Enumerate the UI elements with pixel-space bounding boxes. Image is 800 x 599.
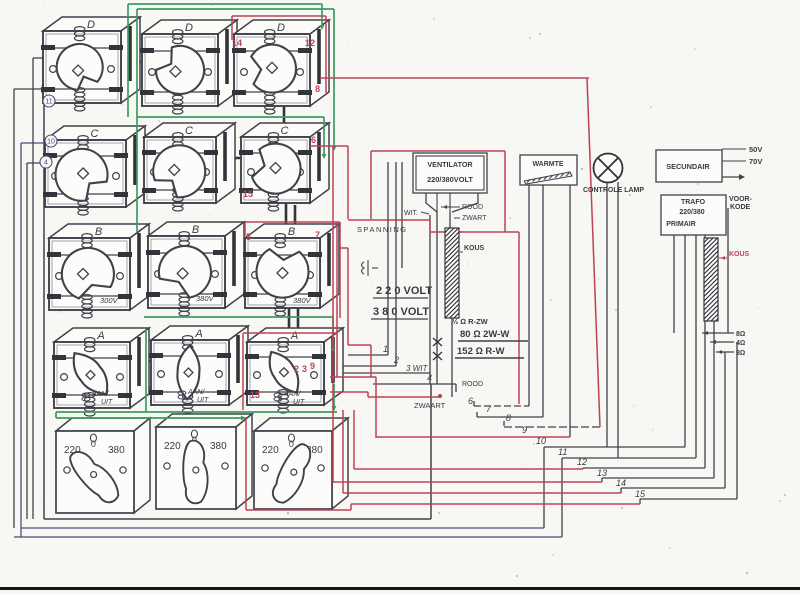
terminal number 4 circled xyxy=(40,156,52,168)
trafo box xyxy=(661,195,726,235)
svg-text:UIT: UIT xyxy=(101,399,113,406)
svg-text:11: 11 xyxy=(558,447,567,457)
svg-text:WIT.: WIT. xyxy=(404,210,418,217)
svg-text:2: 2 xyxy=(294,364,299,374)
red wire row B frame top xyxy=(245,221,340,223)
wire 11 riser to trafo xyxy=(695,230,697,458)
red wire spanning frame right drop xyxy=(429,220,431,232)
wire 1 vertical spanning xyxy=(387,162,389,355)
svg-text:13: 13 xyxy=(597,468,607,478)
rotary switch B1 xyxy=(47,224,149,318)
wire 12 horizontal xyxy=(583,467,705,469)
green wire row A left vertical xyxy=(145,330,147,412)
svg-text:4: 4 xyxy=(44,160,48,167)
bottom scan edge xyxy=(0,587,800,590)
svg-text:10: 10 xyxy=(536,436,546,446)
wire voorkode vertical xyxy=(727,208,729,333)
red wire feeder 12 vertical xyxy=(353,410,355,469)
svg-text:SPANNING: SPANNING xyxy=(357,225,408,234)
red wire ventilator loop top xyxy=(371,150,505,152)
svg-text:ROOD: ROOD xyxy=(462,381,483,388)
wire left bus 4 vertical xyxy=(32,58,34,519)
svg-text:15: 15 xyxy=(243,189,253,199)
wire spanning third vertical xyxy=(401,162,403,268)
svg-text:80 Ω 2W-W: 80 Ω 2W-W xyxy=(460,329,509,340)
svg-text:B: B xyxy=(95,226,102,238)
red wire spanning frame top xyxy=(348,219,430,221)
wire ROOD vertical xyxy=(436,212,438,384)
red wire 5 jog xyxy=(367,392,369,397)
wire 11 drop to bus xyxy=(561,458,563,537)
svg-text:14: 14 xyxy=(616,478,626,488)
svg-text:380: 380 xyxy=(210,441,227,452)
svg-text:7: 7 xyxy=(315,230,320,240)
wire 9 riser to warmte third tap xyxy=(569,185,571,437)
svg-text:2 2 0 VOLT: 2 2 0 VOLT xyxy=(376,285,432,297)
green wire inner left vertical xyxy=(136,9,138,232)
svg-text:4Ω: 4Ω xyxy=(736,340,745,347)
green wire right long drop xyxy=(333,9,335,148)
svg-text:WARMTE: WARMTE xyxy=(532,161,563,168)
svg-text:12: 12 xyxy=(305,38,315,48)
red wire row B right drop xyxy=(339,222,341,318)
wire link B1-B2 xyxy=(131,257,147,259)
green wire top inner horizontal xyxy=(137,8,334,10)
wire link A2-A3 xyxy=(230,361,246,363)
svg-text:C: C xyxy=(91,128,99,140)
wire 3 horizontal WIT xyxy=(340,372,430,374)
svg-text:0: 0 xyxy=(91,439,96,449)
green wire arrow line above selectors xyxy=(56,417,242,419)
wire 2 horizontal xyxy=(340,365,396,367)
rotary switch D2 xyxy=(140,20,237,114)
terminal number 11 circled xyxy=(43,95,55,107)
svg-text:6: 6 xyxy=(311,135,316,145)
svg-text:UIT: UIT xyxy=(293,399,305,406)
wire link D-C rows xyxy=(283,98,286,137)
svg-text:3 8 0 VOLT: 3 8 0 VOLT xyxy=(373,306,429,318)
svg-text:300V: 300V xyxy=(100,296,119,305)
wire 10 riser to trafo xyxy=(684,230,686,447)
green wire drop to row A xyxy=(332,317,334,350)
voltage selector S220-380 nr3 xyxy=(254,418,348,509)
svg-text:C: C xyxy=(281,125,289,137)
wire 7 riser to warmte xyxy=(542,185,544,417)
wire link B-A rows b xyxy=(297,308,300,344)
wire left bus 2 top tap xyxy=(21,142,45,144)
red wire loop D3 right drop xyxy=(325,16,327,93)
red wire row B left drop xyxy=(244,222,246,236)
svg-text:0: 0 xyxy=(289,439,294,449)
rotary switch B2 xyxy=(146,222,244,316)
wire 10 drop to bus xyxy=(543,447,545,528)
red wire step to 371 xyxy=(348,344,371,346)
green wire row C frame top xyxy=(137,116,324,118)
wire 15 link xyxy=(639,499,641,504)
wire WIT vertical xyxy=(429,215,431,384)
red wire feeder 14 vertical xyxy=(342,410,344,493)
wire tap 8 ohm upper xyxy=(702,332,734,334)
wire 13 riser to kous xyxy=(713,321,715,478)
svg-text:PRIMAIR: PRIMAIR xyxy=(666,221,696,228)
svg-text:5: 5 xyxy=(246,232,251,242)
svg-text:2: 2 xyxy=(393,355,399,365)
wire 4 end jog xyxy=(455,384,457,392)
green wire row A right drop xyxy=(333,384,335,408)
wire left bus 3 top tap xyxy=(27,162,45,164)
label AAN/UIT xyxy=(178,389,209,404)
svg-text:13: 13 xyxy=(250,390,260,400)
svg-text:9: 9 xyxy=(310,361,315,371)
wire 50V tap xyxy=(722,148,746,150)
rotary switch A3 xyxy=(245,328,343,413)
red wire jog across xyxy=(430,231,519,233)
wire link C1-C2 xyxy=(127,154,143,156)
label AAN/UIT xyxy=(82,391,113,406)
green wire below row B xyxy=(144,316,333,318)
red wire loop D3 left drop xyxy=(231,16,233,40)
svg-text:KOUS: KOUS xyxy=(464,245,485,252)
svg-text:12: 12 xyxy=(577,457,587,467)
ventilator box xyxy=(413,153,487,193)
green wire top outer horizontal xyxy=(128,3,322,5)
rotary switch D1 xyxy=(41,17,140,111)
terminal number 10 circled xyxy=(45,135,57,147)
red wire main vertical right xyxy=(587,78,600,427)
svg-text:D: D xyxy=(87,19,95,31)
wire ZWART vertical upper xyxy=(449,212,451,228)
secundair box xyxy=(656,150,722,182)
red wire ventilator loop right drop xyxy=(504,151,506,232)
red wire inner vertical xyxy=(347,248,349,345)
svg-text:8: 8 xyxy=(315,84,320,94)
controle lamp xyxy=(594,154,623,183)
red wire bundle tap a xyxy=(330,376,376,378)
wire 11 return bus bottom xyxy=(14,536,562,538)
wire left bus 3 vertical xyxy=(26,163,28,519)
kous sleeve on ventilator cable xyxy=(445,228,459,318)
red wire 8 horizontal to far right xyxy=(320,77,589,79)
green wire bottom left jog xyxy=(55,412,57,418)
svg-text:VENTILATOR: VENTILATOR xyxy=(427,160,473,169)
output arrow xyxy=(722,176,742,178)
lamp wire left to wire 10 xyxy=(606,182,608,447)
svg-text:220: 220 xyxy=(164,441,181,452)
svg-text:ZWART: ZWART xyxy=(462,215,487,222)
wire tap 4 ohm xyxy=(710,341,734,343)
wire tap 8 ohm lower xyxy=(716,351,734,353)
wire 15 horizontal xyxy=(640,498,737,500)
svg-text:B: B xyxy=(192,224,199,236)
rotary switch B3 xyxy=(243,224,339,316)
svg-text:TRAFO: TRAFO xyxy=(681,199,706,206)
svg-text:8Ω: 8Ω xyxy=(736,331,745,338)
connection x marks xyxy=(433,338,442,360)
svg-text:ROOD: ROOD xyxy=(462,204,483,211)
red wire 9 horizontal xyxy=(376,436,570,438)
wire 12 riser xyxy=(704,230,706,468)
red wire long vertical feeder 13 xyxy=(332,146,334,482)
svg-text:6: 6 xyxy=(468,396,473,406)
wire link C2-C3 xyxy=(217,157,240,159)
red wire row A frame left xyxy=(242,333,244,410)
red wire ventilator loop left xyxy=(370,151,372,219)
svg-text:AAN/: AAN/ xyxy=(283,391,301,398)
red wire drop from 6 xyxy=(347,146,349,219)
red wire vertical A right xyxy=(336,222,338,377)
red wire selector 3 loop left xyxy=(245,417,247,510)
svg-text:SECUNDAIR: SECUNDAIR xyxy=(666,162,710,171)
red wire row A frame top xyxy=(243,332,337,334)
voltage selector S220-380 nr1 xyxy=(56,418,150,513)
svg-text:3 WIT: 3 WIT xyxy=(406,364,428,373)
wire link A1-A2 xyxy=(131,360,150,362)
wire 14 horizontal xyxy=(621,487,725,489)
rotary switch C1 xyxy=(43,126,145,215)
enclosure left side xyxy=(43,95,45,519)
svg-text:14: 14 xyxy=(232,38,242,48)
ventilator cable bracket xyxy=(426,193,437,212)
svg-text:AAN/: AAN/ xyxy=(91,391,109,398)
green wire row A bottom xyxy=(56,411,337,413)
svg-text:UIT: UIT xyxy=(197,397,209,404)
svg-text:220: 220 xyxy=(262,445,279,456)
wire link B2-B3 xyxy=(226,259,244,261)
wire 4 horizontal xyxy=(373,383,456,385)
voltage selector S220-380 nr2 xyxy=(156,414,252,509)
svg-text:380: 380 xyxy=(108,445,125,456)
wire 10 return bus bottom xyxy=(21,527,544,529)
rotary switch C2 xyxy=(142,123,235,211)
spring symbol xyxy=(362,260,369,276)
red wire drop to tap xyxy=(370,345,372,377)
svg-text:220/380VOLT: 220/380VOLT xyxy=(427,175,473,184)
red wire 13 feeder horizontal xyxy=(333,481,602,483)
wire link A1-A2 lower xyxy=(131,387,150,389)
rotary switch C3 xyxy=(239,123,329,211)
svg-text:50V: 50V xyxy=(749,145,762,154)
svg-text:KOUS: KOUS xyxy=(729,251,750,258)
wire 1 horizontal xyxy=(348,354,388,356)
green wire left vertical to row C xyxy=(127,4,129,117)
wire link D1-D2 xyxy=(121,61,141,63)
junction X mark xyxy=(42,85,50,93)
svg-text:10: 10 xyxy=(47,139,55,146)
wire link B-A rows a xyxy=(288,306,291,344)
wire 11 horizontal xyxy=(562,457,696,459)
red wire 5 horizontal xyxy=(368,396,440,398)
svg-text:70V: 70V xyxy=(749,157,762,166)
wire 6 riser to warmte xyxy=(528,185,530,406)
wire 8 horizontal xyxy=(504,426,600,428)
warmte box xyxy=(520,155,577,185)
red wire row C stub 6 xyxy=(310,145,348,147)
red wire drop right of kous xyxy=(518,232,520,404)
enclosure right riser from wire 4 xyxy=(430,384,432,519)
svg-text:C: C xyxy=(185,125,193,137)
wire 13 horizontal xyxy=(602,477,714,479)
red wire 12 feeder horizontal xyxy=(354,468,583,470)
wire link D2-D3 xyxy=(218,64,233,66)
wire 12 joint xyxy=(582,468,584,469)
svg-text:D: D xyxy=(185,22,193,34)
label AAN/UIT xyxy=(274,391,305,406)
svg-text:A: A xyxy=(194,328,202,340)
svg-text:15: 15 xyxy=(635,489,646,499)
green wire right drop xyxy=(321,4,323,28)
wire 14 riser xyxy=(724,352,726,488)
svg-text:8Ω: 8Ω xyxy=(736,350,745,357)
svg-text:VOOR-: VOOR- xyxy=(729,196,753,203)
svg-text:11: 11 xyxy=(45,99,52,106)
svg-text:A: A xyxy=(96,330,104,342)
kous sleeve on trafo wires xyxy=(704,238,718,321)
wire left bus 1 top tap xyxy=(14,88,46,90)
wire left bus 2 vertical xyxy=(20,143,22,537)
rotary switch A2 xyxy=(149,326,248,413)
red wire 15 feeder horizontal xyxy=(351,503,640,505)
wire link C-B rows a xyxy=(285,202,288,240)
wire 8 start tick xyxy=(503,421,505,426)
svg-text:AAN/: AAN/ xyxy=(187,389,205,396)
wire 15 riser xyxy=(736,342,738,499)
wire 70V tap xyxy=(722,160,746,162)
svg-text:A: A xyxy=(290,330,298,342)
red wire loop over D3 top xyxy=(232,15,326,17)
wire 7 start tick xyxy=(476,412,478,417)
red wire selector 3 loop bottom xyxy=(246,509,351,511)
wire 10 horizontal xyxy=(544,446,685,448)
wire trafo tap 8 ohm top xyxy=(673,230,675,333)
wire 6 start tick xyxy=(473,401,475,406)
svg-text:220/380: 220/380 xyxy=(679,209,704,216)
rotary switch D3 xyxy=(232,20,329,114)
red wire selector 3 loop right xyxy=(350,504,352,510)
svg-text:D: D xyxy=(277,22,285,34)
wire left bus 4 top tap xyxy=(33,57,44,59)
svg-text:½ Ω R-ZW: ½ Ω R-ZW xyxy=(452,317,489,326)
wire 6 horizontal xyxy=(474,405,529,407)
red wire bundle tap b xyxy=(330,391,368,393)
wire 2 vertical spanning xyxy=(395,162,397,366)
svg-text:3: 3 xyxy=(302,364,307,374)
svg-text:8: 8 xyxy=(506,413,511,423)
rotary switch A1 xyxy=(52,328,149,416)
wire 14 link xyxy=(620,488,622,493)
wire link C-B rows b xyxy=(294,205,297,240)
svg-text:380V: 380V xyxy=(196,294,215,303)
red wire 14 feeder horizontal xyxy=(343,492,621,494)
wire left bus 1 vertical xyxy=(13,89,15,528)
lamp wire right to wire 11 xyxy=(617,182,619,458)
enclosure bottom xyxy=(44,518,431,520)
red wire 9 vertical xyxy=(375,377,377,438)
svg-text:ZWAART: ZWAART xyxy=(414,401,446,410)
svg-text:B: B xyxy=(288,226,295,238)
svg-text:CONTROLE LAMP: CONTROLE LAMP xyxy=(583,187,644,194)
green wire row C right drop xyxy=(323,117,325,156)
svg-text:380V: 380V xyxy=(293,296,312,305)
wire ZWART vertical lower xyxy=(451,318,453,397)
svg-text:KODE: KODE xyxy=(730,204,751,211)
svg-text:4: 4 xyxy=(427,373,432,383)
red wire inner corner h xyxy=(340,247,348,249)
wire 7 horizontal xyxy=(477,416,543,418)
svg-text:152 Ω R-W: 152 Ω R-W xyxy=(457,346,504,357)
svg-text:9: 9 xyxy=(522,425,527,435)
svg-text:1: 1 xyxy=(383,344,388,354)
wire 13 link to red feeder xyxy=(601,478,603,482)
